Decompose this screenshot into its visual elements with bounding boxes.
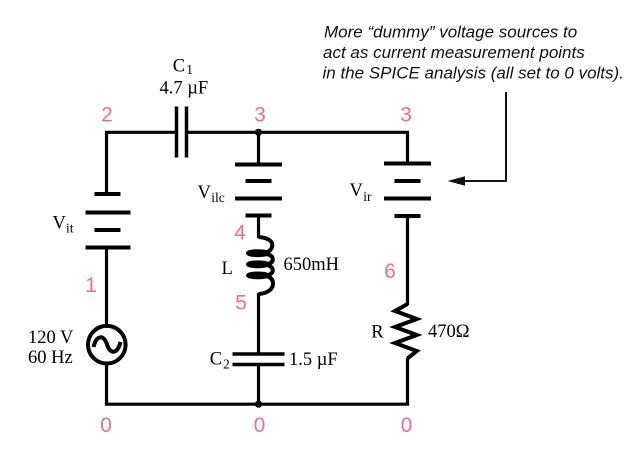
svg-text:650mH: 650mH bbox=[284, 255, 340, 275]
wire bottom bbox=[105, 403, 409, 406]
voltage source V_ilc bbox=[235, 165, 282, 216]
svg-text:C: C bbox=[173, 57, 185, 77]
svg-text:2: 2 bbox=[101, 104, 113, 127]
svg-text:C: C bbox=[210, 350, 222, 370]
wire top: node 3 segment bbox=[188, 132, 408, 163]
annotation arrow bbox=[448, 92, 507, 186]
svg-text:V: V bbox=[350, 181, 364, 201]
label C1 bbox=[173, 57, 193, 78]
wire top-left: node 2 segment bbox=[107, 132, 176, 194]
svg-text:4: 4 bbox=[234, 222, 246, 245]
wire right middle bbox=[406, 216, 409, 305]
svg-text:ilc: ilc bbox=[211, 190, 225, 205]
node 3 junction dot bbox=[255, 129, 262, 136]
wire middle (inductor to C2) bbox=[257, 293, 260, 354]
svg-text:act as current measurement poi: act as current measurement points bbox=[323, 43, 585, 62]
wire middle bottom bbox=[257, 365, 260, 405]
annotation note text bbox=[323, 23, 624, 83]
svg-text:More “dummy” voltage sources t: More “dummy” voltage sources to bbox=[324, 23, 577, 42]
svg-text:3: 3 bbox=[400, 104, 412, 127]
svg-text:4.7 µF: 4.7 µF bbox=[160, 79, 209, 99]
label V_ir bbox=[350, 181, 373, 204]
label C2 bbox=[210, 350, 230, 372]
AC source V1 bbox=[88, 326, 126, 364]
wire right bottom bbox=[406, 358, 409, 404]
svg-text:it: it bbox=[66, 221, 74, 236]
svg-text:60 Hz: 60 Hz bbox=[28, 348, 73, 368]
node 0 junction dot bbox=[255, 401, 262, 408]
label V_it bbox=[53, 214, 74, 236]
resistor R bbox=[395, 304, 417, 359]
voltage source V_ir bbox=[384, 164, 431, 217]
label V_ilc bbox=[198, 183, 225, 205]
svg-text:V: V bbox=[198, 183, 212, 203]
wire middle top bbox=[257, 132, 260, 164]
svg-text:3: 3 bbox=[254, 104, 266, 127]
svg-text:0: 0 bbox=[100, 414, 112, 437]
voltage source V_it bbox=[86, 194, 131, 248]
svg-text:2: 2 bbox=[223, 357, 230, 372]
svg-text:1: 1 bbox=[85, 274, 97, 297]
svg-text:ir: ir bbox=[363, 189, 372, 204]
wire left middle bbox=[105, 248, 108, 327]
wire left bottom bbox=[105, 365, 108, 405]
svg-text:V: V bbox=[53, 214, 67, 234]
wire middle (battery to inductor) bbox=[257, 216, 260, 239]
svg-text:L: L bbox=[222, 259, 233, 279]
svg-text:1.5 µF: 1.5 µF bbox=[289, 350, 338, 370]
svg-text:0: 0 bbox=[254, 414, 266, 437]
svg-text:0: 0 bbox=[401, 414, 413, 437]
svg-text:470Ω: 470Ω bbox=[428, 322, 470, 342]
inductor L bbox=[248, 237, 273, 294]
svg-text:5: 5 bbox=[235, 292, 247, 315]
svg-text:6: 6 bbox=[384, 260, 396, 283]
svg-text:120 V: 120 V bbox=[28, 328, 74, 348]
svg-text:1: 1 bbox=[186, 62, 193, 77]
svg-text:in the SPICE analysis (all set: in the SPICE analysis (all set to 0 volt… bbox=[323, 64, 624, 83]
capacitor C2 bbox=[233, 354, 285, 365]
capacitor C1 bbox=[177, 107, 187, 158]
svg-text:R: R bbox=[371, 323, 384, 343]
